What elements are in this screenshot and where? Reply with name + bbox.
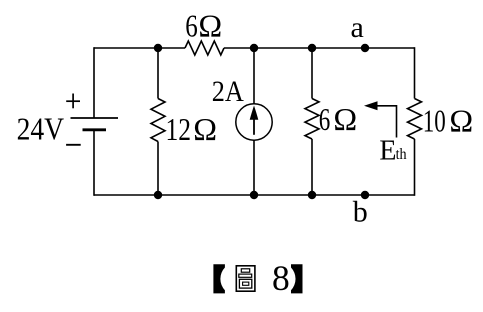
label 6ohm for R3 [319, 101, 357, 137]
label 10ohm for R4 [423, 102, 473, 138]
wire: top rail right segment [224, 47, 415, 49]
wire: 6ohm branch upper [311, 48, 313, 99]
wire: left branch upper (to battery) [93, 47, 95, 118]
current source I1 2A circle [236, 104, 272, 140]
junction dot top at 12ohm branch [154, 44, 162, 52]
wire: bottom rail [94, 194, 415, 196]
node b dot [361, 191, 369, 199]
node b label [353, 196, 368, 229]
caption right lenticular bracket [291, 264, 303, 293]
label Eth [379, 135, 406, 166]
label 6ohm for R1 [185, 8, 222, 44]
resistor R2 12ohm (vertical zigzag) [151, 99, 165, 142]
junction dot bottom at current source branch [250, 191, 258, 199]
Eth arrow (bent, pointing left) [364, 101, 397, 137]
svg-text:6: 6 [185, 8, 198, 44]
current source I1 arrow [250, 106, 259, 135]
resistor R3 6ohm (vertical zigzag) [305, 99, 319, 140]
wire: top rail left segment [94, 47, 185, 49]
polarity minus sign [66, 144, 81, 146]
caption left lenticular bracket [213, 264, 225, 293]
wire: current source branch upper [253, 48, 255, 104]
label 12ohm for R2 [166, 111, 217, 147]
svg-text:Ω: Ω [198, 8, 222, 44]
label 2A for I1 [212, 75, 244, 108]
wire: current source branch lower [253, 141, 255, 196]
node a label [351, 11, 364, 44]
svg-text:12: 12 [166, 111, 192, 147]
wire: 12ohm branch upper [157, 48, 159, 99]
junction dot top at 6ohm branch [308, 44, 316, 52]
polarity plus sign [66, 94, 80, 109]
wire: left branch lower (battery to bottom rail) [93, 130, 95, 196]
svg-text:2A: 2A [212, 75, 244, 108]
label 24V for V1 [17, 110, 65, 146]
junction dot bottom at 6ohm branch [308, 191, 316, 199]
junction dot top at current source branch [250, 44, 258, 52]
wire: right branch upper [414, 47, 416, 98]
svg-text:Ω: Ω [193, 111, 217, 147]
svg-text:th: th [396, 146, 407, 163]
resistor R4 10ohm (vertical zigzag) [408, 99, 422, 140]
svg-text:10: 10 [423, 102, 446, 138]
wire: 6ohm branch lower [311, 139, 313, 195]
svg-text:E: E [379, 135, 396, 166]
voltage source V1 battery long plate [71, 117, 119, 119]
svg-text:8: 8 [272, 258, 290, 298]
svg-text:6: 6 [319, 101, 331, 137]
wire: 12ohm branch lower [157, 142, 159, 196]
caption glyph tu (figure) [236, 266, 255, 291]
wire: right branch lower [414, 139, 416, 196]
svg-text:b: b [353, 196, 368, 229]
svg-text:Ω: Ω [449, 102, 473, 138]
node a dot [361, 44, 369, 52]
svg-text:24V: 24V [17, 110, 65, 146]
voltage source V1 battery short plate [83, 128, 107, 131]
caption figure number 8 [272, 258, 290, 298]
resistor R1 6ohm (horizontal zigzag) [185, 41, 224, 55]
junction dot bottom at 12ohm branch [154, 191, 162, 199]
svg-text:Ω: Ω [333, 101, 357, 137]
svg-text:a: a [351, 11, 364, 44]
